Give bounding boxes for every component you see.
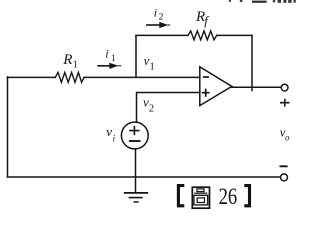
label v1 xyxy=(144,53,155,73)
resistor R1 xyxy=(55,72,84,82)
svg-text:1: 1 xyxy=(111,53,116,63)
svg-text:o: o xyxy=(285,133,290,143)
source vi circle xyxy=(121,122,148,149)
output terminal top xyxy=(281,84,288,91)
svg-text:1: 1 xyxy=(73,60,78,71)
wire riser v1 to top branch xyxy=(135,36,137,78)
wire top branch left xyxy=(136,34,188,36)
source plus sign xyxy=(129,126,139,135)
svg-text:v: v xyxy=(106,124,112,139)
label i1 xyxy=(105,46,115,62)
resistor Rf xyxy=(188,31,217,40)
svg-text:26: 26 xyxy=(219,184,238,210)
wire op-amp output xyxy=(232,86,282,88)
wire v2 to op-amp plus input xyxy=(137,93,200,123)
caption glyph 圖 xyxy=(192,187,209,208)
caption left lenticular bracket xyxy=(178,186,184,206)
label vo xyxy=(280,125,290,143)
caption right lenticular bracket xyxy=(244,186,249,206)
svg-text:i: i xyxy=(105,46,108,60)
ground stem xyxy=(135,177,137,193)
output terminal bottom xyxy=(281,174,288,181)
svg-text:R: R xyxy=(62,52,72,68)
label R1 xyxy=(62,52,78,71)
output plus sign xyxy=(280,99,290,107)
op-amp U1 triangle xyxy=(200,67,232,106)
svg-text:2: 2 xyxy=(159,13,164,23)
source minus sign xyxy=(129,140,141,142)
wire feedback right vertical xyxy=(251,35,253,90)
svg-text:2: 2 xyxy=(149,104,154,115)
svg-text:f: f xyxy=(204,13,210,28)
label i2 xyxy=(154,6,164,23)
wire bottom rail xyxy=(8,176,281,178)
wire top branch right xyxy=(217,34,252,36)
current arrow i1 xyxy=(97,63,121,69)
svg-text:1: 1 xyxy=(150,62,155,73)
current arrow i2 xyxy=(146,22,170,28)
label Rf xyxy=(195,9,210,28)
top edge cropped text fragments xyxy=(229,0,296,3)
wire input left segment xyxy=(8,76,56,78)
wire source bottom stem xyxy=(135,149,137,177)
label vi xyxy=(106,124,115,144)
svg-text:i: i xyxy=(154,6,157,20)
ground xyxy=(124,193,148,202)
wire R1 to op-amp minus input (through node v1) xyxy=(84,76,200,78)
label v2 xyxy=(143,95,154,115)
op-amp plus sign xyxy=(202,89,210,97)
output minus sign xyxy=(280,165,288,167)
op-amp minus sign xyxy=(203,76,209,78)
svg-text:i: i xyxy=(113,134,116,144)
wire left vertical xyxy=(7,77,9,177)
